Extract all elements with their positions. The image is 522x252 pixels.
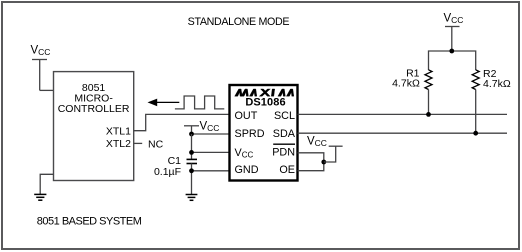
svg-text:SCL: SCL [274, 110, 295, 122]
svg-text:XTL2: XTL2 [106, 138, 131, 150]
wire R1 to SCL [428, 90, 430, 115]
svg-text:GND: GND [235, 164, 259, 176]
wire SPRD pin [192, 133, 230, 135]
wire XTL2 stub [134, 142, 143, 144]
power VCC (8051) [32, 60, 47, 91]
wire PDN/OE tie [298, 153, 324, 171]
svg-text:PDN: PDN [272, 147, 295, 159]
power VCC (SPRD/VCC pins) [184, 126, 199, 134]
wire pullup rail [429, 51, 476, 70]
arrow (clock output direction) [154, 101, 179, 103]
ground (8051) [34, 194, 46, 200]
node junction R1/SCL [426, 112, 431, 117]
capacitor C1 [187, 159, 198, 163]
power VCC (PDN/OE) [329, 145, 343, 147]
node junction VCC rail [449, 49, 454, 54]
wire VCC pin [192, 151, 230, 153]
svg-text:8051 BASED SYSTEM: 8051 BASED SYSTEM [37, 215, 142, 227]
svg-text:4.7kΩ: 4.7kΩ [483, 78, 511, 90]
svg-text:XTL1: XTL1 [106, 126, 131, 138]
wire R2 to SDA [475, 90, 477, 134]
wire 8051 ground tap [40, 174, 53, 194]
node junction PDN/OE [321, 160, 326, 165]
wire OUT to XTL1 [134, 114, 230, 130]
svg-text:0.1µF: 0.1µF [154, 166, 181, 178]
wire GND pin [192, 170, 230, 172]
svg-text:4.7kΩ: 4.7kΩ [392, 77, 420, 89]
svg-text:CONTROLLER: CONTROLLER [58, 103, 130, 115]
svg-text:OE: OE [279, 164, 295, 176]
svg-text:STANDALONE MODE: STANDALONE MODE [188, 16, 290, 28]
svg-text:SDA: SDA [273, 128, 296, 140]
svg-text:SPRD: SPRD [235, 128, 265, 140]
wire SDA line [298, 132, 508, 134]
wire SCL line [298, 113, 508, 115]
ground (C1) [186, 195, 198, 201]
logo MAXIM [235, 89, 294, 96]
svg-text:NC: NC [148, 139, 164, 151]
svg-text:VCC: VCC [200, 121, 220, 134]
svg-text:DS1086: DS1086 [245, 97, 285, 109]
wire rail to VCC pin [191, 134, 193, 159]
resistor R2 [472, 70, 479, 90]
waveform (square wave) [175, 96, 224, 109]
svg-text:VCC: VCC [307, 136, 327, 149]
resistor R1 [425, 70, 432, 90]
wire cap to GND pin [191, 164, 193, 195]
node junction R2/SDA [473, 131, 478, 136]
wire VCC to 8051 [40, 89, 54, 91]
node junction SPRD/VCC rail [189, 132, 194, 137]
svg-text:VCC: VCC [31, 45, 51, 58]
microcontroller U1 8051 box [54, 72, 134, 181]
IC U2 DS1086 box [230, 85, 298, 181]
svg-text:VCC: VCC [444, 13, 464, 26]
node junction VCC pin [189, 150, 194, 155]
power VCC (pullups) [445, 27, 460, 52]
node junction GND pin [189, 168, 194, 173]
wire junction to VCC [324, 146, 336, 162]
svg-text:OUT: OUT [235, 110, 258, 122]
